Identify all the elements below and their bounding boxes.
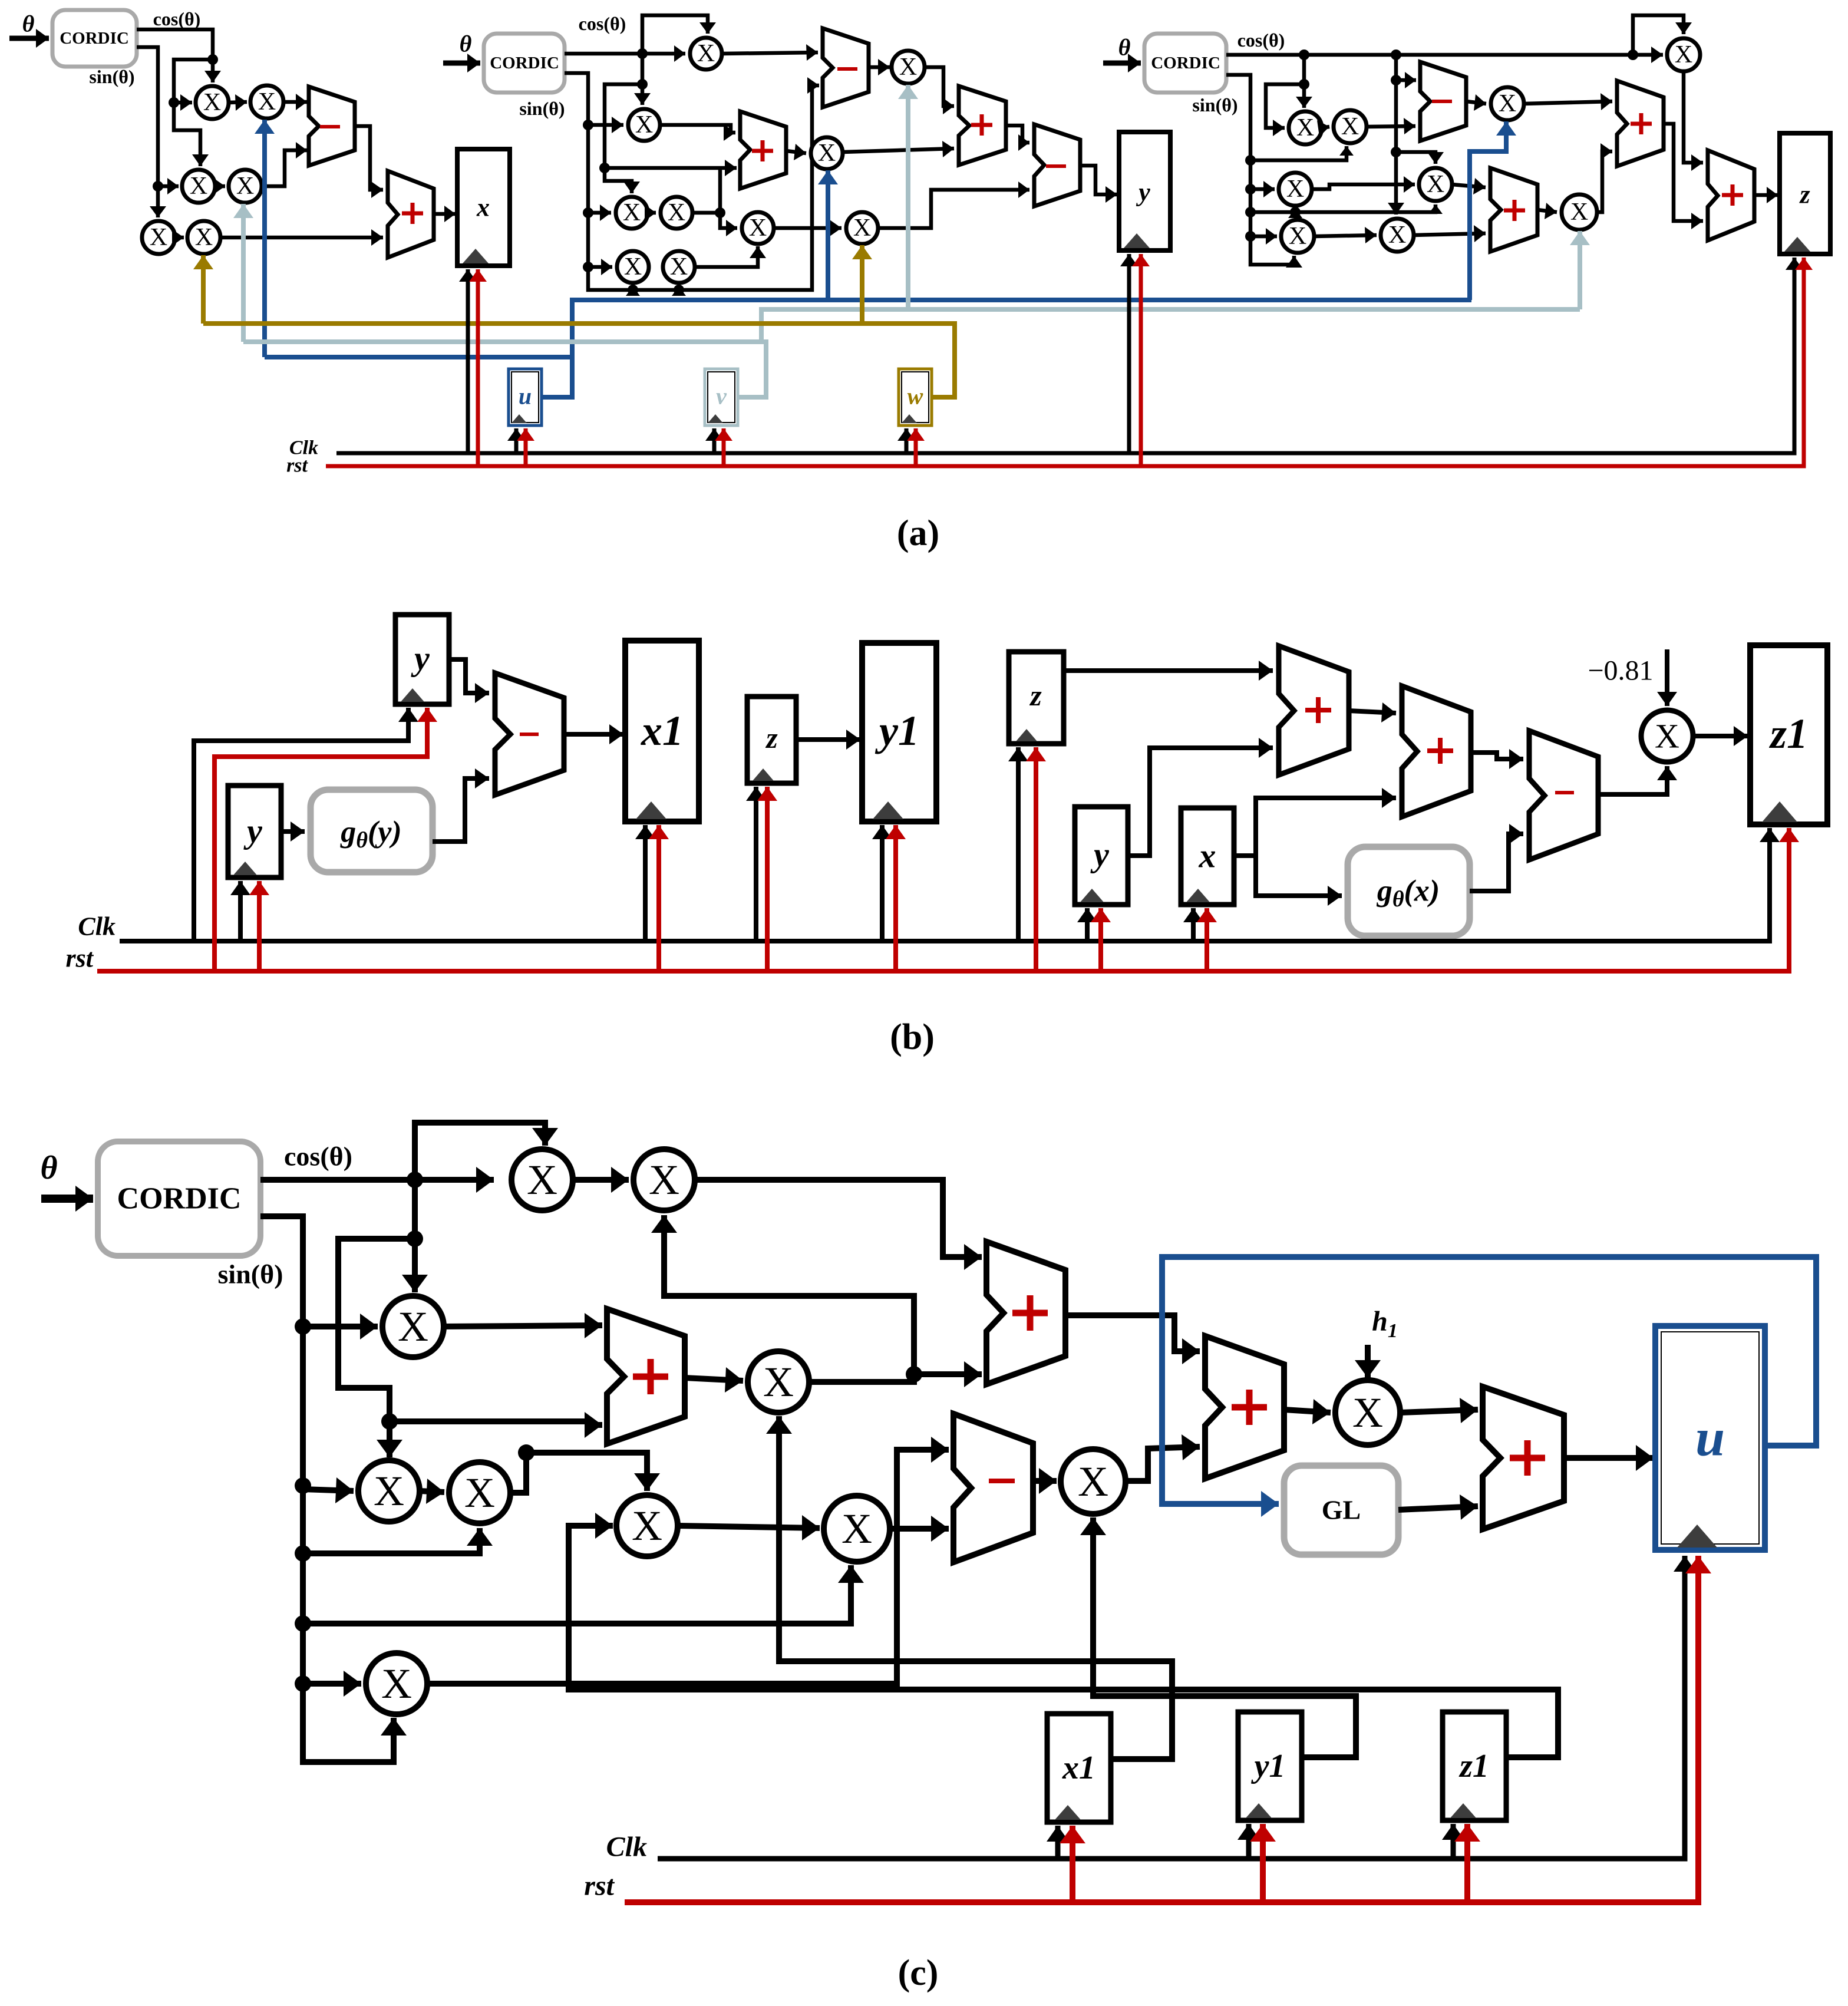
wire h1 to Ch1 top (1355, 1345, 1381, 1378)
wire B4 to multiplier B5 bottom (1598, 766, 1677, 794)
wire cos3 down to M22 top (1388, 55, 1404, 215)
svg-text:sin(θ): sin(θ) (89, 66, 134, 87)
multiplier M24 (1491, 87, 1524, 120)
wire Ch1 to adder C11 top (1400, 1398, 1478, 1423)
wire sin4 to C5x bottom (303, 1528, 493, 1553)
svg-text:v: v (716, 383, 727, 410)
multiplier C8x (748, 1351, 809, 1413)
svg-text:θ: θ (22, 11, 35, 37)
svg-text:X: X (1296, 114, 1314, 141)
register u c (1655, 1326, 1765, 1550)
svg-text:X: X (1341, 113, 1359, 140)
wire cos3 horizontal (1226, 47, 1663, 63)
svg-text:u: u (519, 383, 532, 410)
wire v bus main (243, 342, 766, 397)
wire x right junction (1234, 853, 1256, 858)
wire theta to CORDIC U2 (443, 54, 480, 72)
wire C8x out riser (651, 1215, 922, 1383)
svg-text:X: X (527, 1156, 557, 1203)
wire clk to y left b (230, 881, 250, 941)
svg-text:rst: rst (584, 1870, 615, 1902)
svg-text:rst: rst (66, 944, 94, 973)
multiplier M21 (1281, 220, 1314, 253)
wire rst to y right b (1091, 908, 1111, 971)
multiplier C10x (1061, 1449, 1126, 1514)
adder C10 (1205, 1336, 1284, 1479)
g-theta-x block (1348, 847, 1470, 936)
wire cos4 down (402, 1180, 428, 1292)
register v (705, 369, 738, 425)
wire sin4 vertical (260, 1216, 407, 1762)
svg-text:X: X (749, 215, 767, 242)
wire M2 to subtractor A1 (283, 94, 307, 110)
subtractor B4 (1529, 731, 1598, 860)
wire rst to y left b (249, 881, 269, 971)
multiplier Ch1 (1335, 1380, 1400, 1445)
wire A6 to register y (1080, 166, 1117, 203)
multiplier M6 (187, 221, 220, 254)
wire theta to CORDIC U4 (41, 1186, 93, 1212)
wire C4 to C5x (420, 1479, 444, 1504)
wire clk to y1 (872, 825, 892, 941)
wire rst to register x (469, 269, 487, 466)
wire M4 to subtractor A1 lower (262, 142, 307, 186)
wire cos4 branch to adder C5 lower (390, 1412, 602, 1438)
svg-text:x1: x1 (641, 707, 684, 754)
wire sin2 to M9 left (588, 117, 623, 133)
multiplier M9 (628, 109, 660, 141)
register x1 c (1047, 1714, 1111, 1822)
wire C10 to Ch1 (1284, 1399, 1331, 1424)
wire rst to y1 c (1250, 1824, 1276, 1902)
wire C6 to C7 (678, 1515, 820, 1540)
adder A10 (1708, 150, 1754, 240)
wire clk to y1 c (1237, 1824, 1260, 1859)
wire cos3 loop to M23 top (1633, 15, 1692, 55)
register y top b (395, 615, 449, 704)
wire M8 to adder A5 top (925, 67, 954, 114)
subtractor A1 (309, 87, 355, 166)
wire M9 to adder A4 (660, 124, 735, 141)
wire cos3 to M17 top (1296, 55, 1312, 108)
multiplier M15 (846, 212, 878, 244)
svg-text:X: X (381, 1660, 412, 1707)
wire clk to z1 c (1442, 1824, 1464, 1859)
g-theta-y block (311, 790, 433, 872)
wire A2 to register x (434, 206, 456, 222)
wire sin2 vertical and bottom bus (565, 73, 819, 295)
wire C2 out to adder C8 top (695, 1180, 982, 1270)
wire rst to x right b (1197, 908, 1217, 971)
svg-text:X: X (668, 199, 685, 226)
svg-text:w: w (907, 383, 923, 410)
wire cos4 horizontal (260, 1167, 494, 1193)
wire clk to register v (705, 428, 723, 453)
wire rst line c (625, 1556, 1711, 1902)
wire M16 to adder A5 lower (843, 141, 954, 157)
multiplier M23 (1667, 38, 1700, 71)
multiplier M13 (663, 251, 695, 283)
wire sin4 to C-bot left (303, 1671, 361, 1697)
wire w bus to M6 bottom (193, 255, 213, 324)
svg-text:gθ(x): gθ(x) (1377, 875, 1440, 912)
wire cos4 loop to C1 top (415, 1123, 558, 1180)
multiplier C7 (824, 1496, 890, 1562)
wire M7 to subtractor A3 (722, 44, 818, 61)
wire sin2 to M10 left (588, 204, 611, 221)
svg-text:u: u (1695, 1409, 1725, 1467)
svg-text:sin(θ): sin(θ) (218, 1259, 283, 1289)
wire cos2 branch to adder A4 lower (605, 160, 737, 176)
wire v bus to M8 bottom (898, 85, 918, 309)
wire v bus upper branch (761, 309, 1580, 342)
wire M6 to adder A2 lower (220, 229, 383, 246)
svg-text:CORDIC: CORDIC (1151, 54, 1220, 72)
wire v bus to M25 bottom (1570, 231, 1590, 309)
wire g-theta-x to subtractor B4 lower (1470, 824, 1523, 891)
adder A8 (1490, 168, 1537, 252)
wire M25 to adder A9 lower (1597, 143, 1612, 212)
svg-text:z: z (765, 721, 778, 754)
wire A7 to M24 (1466, 94, 1486, 111)
register z b2 (1009, 652, 1064, 744)
multiplier M14 (742, 212, 774, 244)
wire clk line c (658, 1556, 1696, 1859)
svg-text:X: X (464, 1469, 495, 1516)
multiplier M19 (1279, 173, 1312, 206)
wire M22 to adder A8 lower (1414, 225, 1486, 242)
multiplier M4 (229, 170, 262, 203)
wire M3 to M4 (213, 178, 225, 194)
svg-text:CORDIC: CORDIC (117, 1182, 242, 1216)
wire u bus to M2 bottom (255, 120, 275, 357)
svg-text:z: z (1029, 679, 1042, 712)
svg-text:X: X (1427, 171, 1444, 198)
svg-text:X: X (818, 140, 836, 167)
adder A5 (959, 86, 1006, 165)
svg-text:z: z (1798, 180, 1810, 209)
register z1 c (1443, 1712, 1506, 1820)
svg-text:y1: y1 (1251, 1748, 1286, 1784)
wire cos2 to M7 left (565, 45, 685, 62)
wire u bus to M16 bottom (818, 170, 838, 300)
svg-text:X: X (1352, 1389, 1383, 1436)
wire w bus to M15 bottom (852, 245, 872, 324)
adder A4 (740, 111, 786, 189)
wire sin1 vertical (137, 47, 166, 217)
svg-text:X: X (1289, 223, 1306, 250)
wire z to register y1 (796, 730, 860, 750)
wire B1 to register x1 (564, 724, 623, 744)
svg-text:X: X (190, 173, 207, 200)
svg-text:X: X (203, 89, 221, 116)
multiplier M11 (661, 197, 692, 229)
svg-text:cos(θ): cos(θ) (1237, 29, 1285, 51)
svg-text:X: X (632, 1502, 662, 1549)
register z (1780, 133, 1830, 254)
svg-text:X: X (374, 1467, 404, 1515)
multiplier C6 (616, 1495, 678, 1556)
wire C3 to adder C5 top (444, 1313, 602, 1338)
wire v bus to M4 bottom (233, 204, 253, 342)
svg-text:z1: z1 (1458, 1748, 1489, 1784)
adder C11 (1483, 1387, 1564, 1529)
adder A2 (388, 171, 434, 258)
register x (457, 149, 510, 266)
multiplier M17 (1289, 111, 1322, 144)
wire M20 to adder A8 top (1452, 178, 1486, 194)
wire M23 to adder A10 top (1684, 71, 1703, 171)
wire cos2 branch to M10 top (599, 84, 642, 193)
subtractor A3 (823, 28, 869, 107)
wire sin3 branch to M18 bottom (1250, 146, 1354, 160)
multiplier M10 (616, 197, 648, 229)
wire clk to register u (507, 428, 525, 453)
multiplier M16 (811, 137, 843, 169)
wire M19 to M20 (1312, 176, 1415, 193)
wire x1 feedback to C8x bottom (766, 1416, 1172, 1759)
wire M13 to M14 bottom (695, 246, 766, 267)
svg-text:x1: x1 (1062, 1750, 1095, 1786)
multiplier M3 (182, 170, 215, 203)
wire cos1 to M2 top (137, 29, 221, 83)
wire y1 feedback to C10x bottom (1080, 1517, 1356, 1757)
svg-text:rst: rst (286, 455, 308, 477)
svg-text:X: X (1655, 717, 1679, 755)
svg-text:X: X (1675, 41, 1692, 68)
CORDIC block U4 (98, 1141, 260, 1256)
wire rst to z b2 (1026, 747, 1046, 971)
wire M15 to subtractor A6 lower (878, 182, 1029, 228)
wire B5 to register z1 (1693, 726, 1748, 746)
svg-text:X: X (1499, 90, 1516, 117)
wire clk to z b2 (1008, 747, 1028, 941)
svg-text:(a): (a) (897, 513, 939, 553)
wire M21 to M22 (1314, 227, 1377, 243)
wire u feedback blue loop (1162, 1257, 1816, 1517)
wire sin3 vertical (1226, 75, 1302, 268)
wire clk to x right b (1183, 908, 1203, 941)
svg-text:cos(θ): cos(θ) (284, 1141, 352, 1172)
register y1 c (1238, 1712, 1302, 1820)
subtractor B1 (495, 673, 564, 795)
wire rst to z b1 (757, 787, 777, 971)
svg-text:X: X (258, 88, 276, 116)
svg-text:(b): (b) (890, 1017, 935, 1057)
wire C10x to adder C10 lower (1126, 1434, 1200, 1481)
wire sin4 long to C7 bottom (303, 1565, 864, 1624)
svg-text:CORDIC: CORDIC (490, 54, 559, 72)
svg-text:X: X (1286, 176, 1304, 203)
wire cos4 branch left (338, 1239, 415, 1457)
wire rst line b (97, 828, 1799, 971)
svg-text:X: X (635, 111, 653, 138)
svg-text:GL: GL (1322, 1495, 1361, 1525)
multiplier C3 (382, 1296, 444, 1357)
register z b1 (747, 697, 796, 783)
multiplier C2 (633, 1149, 695, 1210)
wire M18 to subtractor A7 lower (1367, 118, 1415, 134)
svg-text:X: X (1570, 199, 1588, 226)
wire C7 to subtractor C9 lower (890, 1516, 949, 1542)
wire A9 to adder A10 lower (1664, 124, 1703, 229)
wire rst to register w (907, 428, 925, 466)
multiplier B5 (1641, 710, 1693, 762)
wire clk to register x (459, 269, 477, 453)
wire clk to x1 (635, 825, 655, 941)
svg-text:sin(θ): sin(θ) (519, 98, 565, 119)
wire cos2 loop to M7 top (642, 15, 716, 54)
register y right b (1075, 807, 1128, 905)
svg-text:X: X (150, 224, 167, 251)
svg-text:X: X (899, 54, 917, 81)
multiplier M8 (892, 51, 925, 84)
wire cos1 branch down-left (169, 60, 213, 166)
multiplier M5 (142, 221, 175, 254)
wire u bus to M24 bottom (1470, 121, 1516, 300)
multiplier M25 (1562, 194, 1597, 230)
wire sin2 to M12 left (588, 259, 612, 275)
register u (509, 369, 542, 425)
wire GL to adder C11 lower (1398, 1494, 1478, 1520)
wire C5x out up (510, 1444, 660, 1493)
wire A10 to register z (1754, 187, 1778, 203)
wire sin4 to C4 left (303, 1477, 354, 1503)
svg-text:X: X (649, 1156, 679, 1203)
wire clk to z b1 (746, 787, 766, 941)
wire rst to y1 (886, 825, 906, 971)
wire theta to CORDIC U3 (1103, 54, 1141, 72)
svg-text:gθ(y): gθ(y) (340, 816, 401, 853)
wire C8x to adder C8 lower (914, 1361, 982, 1387)
svg-text:X: X (624, 253, 642, 281)
wire sin3 to M21 left (1250, 228, 1277, 245)
wire x right to adder B3 lower (1256, 788, 1396, 856)
wire rst to x1 c (1060, 1826, 1085, 1902)
multiplier C5x (449, 1462, 510, 1523)
multiplier M20 (1419, 168, 1452, 201)
wire C9 to C10x (1033, 1468, 1057, 1494)
svg-text:z1: z1 (1768, 710, 1808, 757)
wire A8 to M25 (1537, 203, 1557, 219)
wire y right to adder B2 lower (1128, 738, 1273, 856)
GL block (1284, 1466, 1398, 1555)
register y1 (862, 643, 936, 821)
wire sin3 to M19 bottom (1288, 209, 1302, 218)
wire rst to z1 c (1454, 1824, 1480, 1902)
svg-text:CORDIC: CORDIC (60, 29, 129, 48)
wire sin3 bus to M20 bottom (1250, 204, 1443, 217)
multiplier M18 (1334, 110, 1367, 143)
wire C8 to adder C10 top (1065, 1315, 1200, 1364)
wire z1 feedback to C6 left (569, 1513, 1558, 1757)
CORDIC block U1 (52, 10, 137, 67)
wire theta to CORDIC U1 (9, 29, 49, 48)
wire z b2 to adder B2 top (1064, 661, 1273, 681)
wire u bus branch left (265, 355, 572, 359)
svg-text:X: X (236, 173, 254, 200)
wire y left to g-theta-y (281, 821, 305, 842)
svg-text:X: X (670, 253, 688, 281)
CORDIC block U3 (1144, 34, 1226, 93)
wire w bus main (203, 324, 955, 397)
multiplier M7 (690, 38, 722, 70)
subtractor A7 (1420, 62, 1466, 141)
svg-text:Clk: Clk (606, 1832, 647, 1863)
svg-text:cos(θ): cos(θ) (579, 13, 626, 34)
wire sin3 to M19 left (1250, 181, 1275, 197)
wire B2 to adder B3 top (1349, 702, 1396, 722)
register y (1119, 132, 1170, 250)
subtractor A6 (1034, 124, 1080, 206)
svg-text:θ: θ (40, 1150, 57, 1186)
wire y top to subtractor B1 (449, 659, 489, 703)
svg-text:cos(θ): cos(θ) (153, 8, 201, 29)
CORDIC block U2 (484, 34, 565, 93)
wire rst line a (326, 258, 1813, 466)
multiplier C-bot (366, 1653, 427, 1714)
svg-text:X: X (763, 1358, 794, 1405)
wire clk line b (120, 828, 1780, 941)
multiplier C4 (358, 1460, 420, 1522)
wire M17 to M18 (1317, 120, 1329, 137)
multiplier M22 (1381, 219, 1414, 252)
svg-text:X: X (398, 1303, 428, 1350)
wire rst to register u (517, 428, 534, 466)
wire x right to g-theta-x (1256, 856, 1342, 906)
wire rst to register y (1132, 254, 1150, 466)
subtractor C9 (953, 1414, 1033, 1562)
wire clk line a (336, 258, 1803, 453)
multiplier M1 (196, 86, 229, 119)
wire rst to register v (715, 428, 732, 466)
svg-text:X: X (853, 215, 871, 242)
svg-text:x: x (476, 193, 490, 222)
wire M5 to M6 (172, 229, 184, 246)
multiplier M12 (617, 251, 649, 283)
adder C5 (607, 1309, 685, 1444)
wire g-theta-y to subtractor B1 lower (433, 768, 489, 842)
svg-text:−0.81: −0.81 (1588, 655, 1653, 687)
svg-text:X: X (841, 1505, 872, 1552)
wire cos1 branch to M1 left (174, 94, 192, 111)
svg-text:(c): (c) (898, 1953, 939, 1993)
register x1 (625, 641, 699, 821)
wire u bus main (542, 300, 1471, 397)
wire cos3 branch to M20 top (1396, 152, 1444, 164)
wire cos3 branch to subtractor A7 top (1396, 72, 1416, 88)
multiplier M2 (250, 85, 283, 118)
adder C8 (986, 1242, 1065, 1384)
register w (899, 369, 932, 425)
wire B3 to subtractor B4 top (1471, 749, 1523, 769)
wire A1 to adder A2 (355, 126, 383, 198)
svg-text:X: X (623, 199, 641, 226)
wire A5 to subtractor A6 (1006, 126, 1029, 151)
adder B2 (1279, 646, 1349, 775)
wire M24 to adder A9 top (1524, 93, 1612, 110)
wire sin4 to C3 left (303, 1314, 378, 1339)
wire A4 to M16 (786, 144, 806, 160)
wire bus to M12 bottom (626, 286, 640, 296)
wire sin1 to M3 left (158, 178, 179, 194)
wire clk to x1 c (1047, 1826, 1069, 1859)
wire bus to M13 bottom (672, 286, 686, 296)
register x right b (1181, 808, 1234, 905)
wire clk to y top b (194, 708, 418, 941)
wire clk to register w (897, 428, 915, 453)
wire C1 to C2 (573, 1167, 629, 1193)
